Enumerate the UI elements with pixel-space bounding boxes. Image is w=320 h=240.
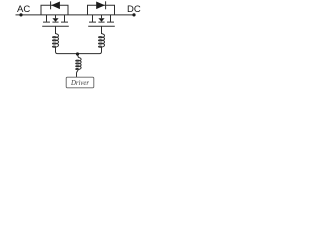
svg-text:AC: AC — [17, 4, 30, 15]
svg-text:Driver: Driver — [70, 80, 89, 87]
svg-text:DC: DC — [127, 4, 141, 15]
